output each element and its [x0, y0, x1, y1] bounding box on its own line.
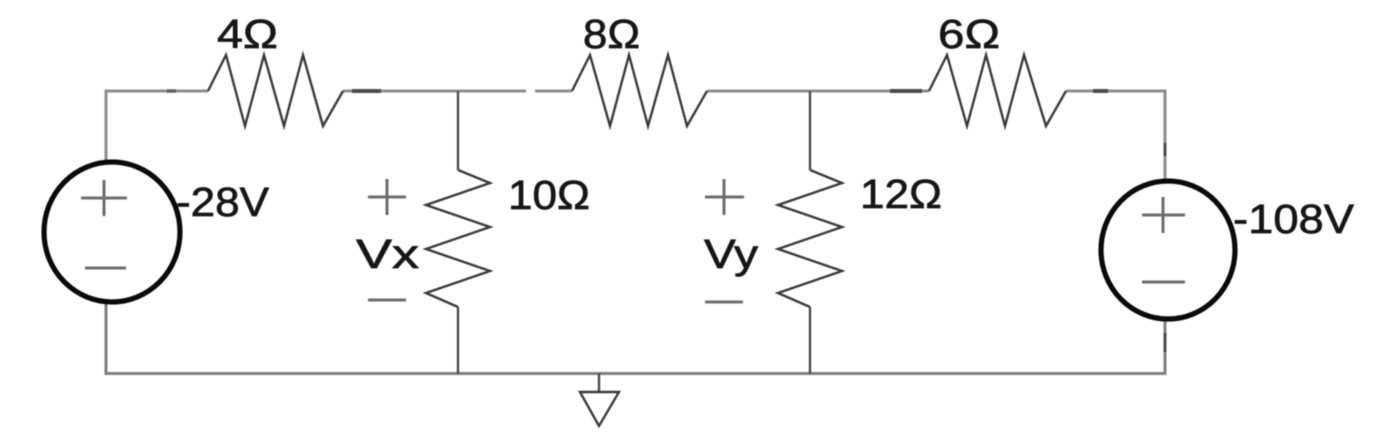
wire top rail left segment [106, 91, 208, 163]
svg-text:4Ω: 4Ω [217, 11, 278, 57]
wire top right segment and right rail [1066, 91, 1165, 181]
resistor R1 4ohm zigzag [208, 55, 343, 126]
svg-text:-28V: -28V [176, 179, 270, 225]
svg-text:Vx: Vx [356, 231, 420, 277]
ground triangle [580, 392, 619, 426]
wire dark overlay after 6ohm [1093, 89, 1108, 93]
voltage source V2 circle [1101, 181, 1235, 319]
wire top segment 8ohm to 6ohm [707, 90, 929, 93]
svg-text:Vy: Vy [704, 231, 759, 277]
voltage source V1 circle [44, 162, 180, 302]
wire dark overlay on right rail [1164, 143, 1167, 156]
node Vx plus sign [368, 179, 406, 215]
voltage source V1 minus sign [85, 267, 126, 270]
voltage source V2 plus sign [1142, 197, 1185, 233]
wire segment after break [535, 90, 572, 93]
wire 10ohm bottom stub [457, 307, 459, 374]
wire bottom rail [106, 302, 1165, 374]
resistor R4 10ohm vertical zigzag [426, 170, 490, 307]
resistor R3 6ohm zigzag [929, 55, 1066, 126]
svg-text:6Ω: 6Ω [938, 11, 1000, 57]
voltage source V1 plus sign [81, 180, 127, 216]
svg-text:-108V: -108V [1233, 196, 1355, 242]
node Vy minus sign [705, 301, 743, 304]
voltage source V2 minus sign [1142, 281, 1185, 284]
svg-text:10Ω: 10Ω [508, 172, 590, 218]
wire dark overlay below right source [1164, 333, 1167, 352]
wire 12ohm bottom stub [809, 307, 811, 374]
wire node B drop to 12ohm [809, 91, 811, 170]
wire dark overlay near node A [352, 89, 381, 93]
node Vx minus sign [368, 299, 406, 302]
wire top middle segment (4ohm to 8ohm, with break) [343, 90, 526, 93]
svg-text:8Ω: 8Ω [583, 11, 640, 57]
ground stem [598, 374, 600, 393]
wire node A drop to 10ohm [457, 91, 459, 170]
wire dark overlay before 6ohm [890, 89, 922, 93]
wire dark overlay before 4ohm [167, 89, 176, 93]
svg-text:12Ω: 12Ω [860, 171, 942, 217]
resistor R5 12ohm vertical zigzag [778, 170, 842, 307]
resistor R2 8ohm zigzag [572, 55, 707, 126]
node Vy plus sign [705, 179, 744, 215]
